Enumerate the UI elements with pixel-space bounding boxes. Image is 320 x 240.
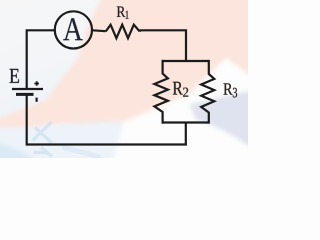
ammeter letter A [63, 18, 82, 40]
resistor R2 branch [154, 60, 168, 124]
label R1 subscript 1 [126, 11, 129, 19]
wire: bottom rail [27, 143, 187, 145]
wire: top bus of parallel pair [162, 60, 209, 62]
label E (battery) [10, 69, 20, 83]
wire: R1 to top-right corner, down to top bus [140, 30, 186, 61]
wire: left rail below battery [26, 94, 28, 146]
battery minus tick [35, 98, 37, 102]
resistor R1 zigzag [106, 25, 140, 39]
label R1 [117, 7, 126, 17]
wire: ammeter to R1 [92, 29, 105, 32]
label R2 subscript 2 [183, 88, 188, 97]
battery E short plate [16, 93, 34, 96]
battery E long plate [12, 88, 43, 90]
wire: left corner to ammeter [27, 30, 55, 88]
battery plus sign [34, 81, 39, 86]
label R2 [173, 82, 183, 95]
wire: bottom bus down to bottom rail [185, 123, 187, 145]
ammeter A1 circle [55, 11, 92, 48]
label R3 [224, 83, 233, 94]
background base [0, 0, 248, 158]
resistor R3 branch [201, 60, 214, 124]
label R3 subscript 3 [233, 88, 237, 98]
wire: bottom bus of parallel pair [162, 121, 209, 123]
